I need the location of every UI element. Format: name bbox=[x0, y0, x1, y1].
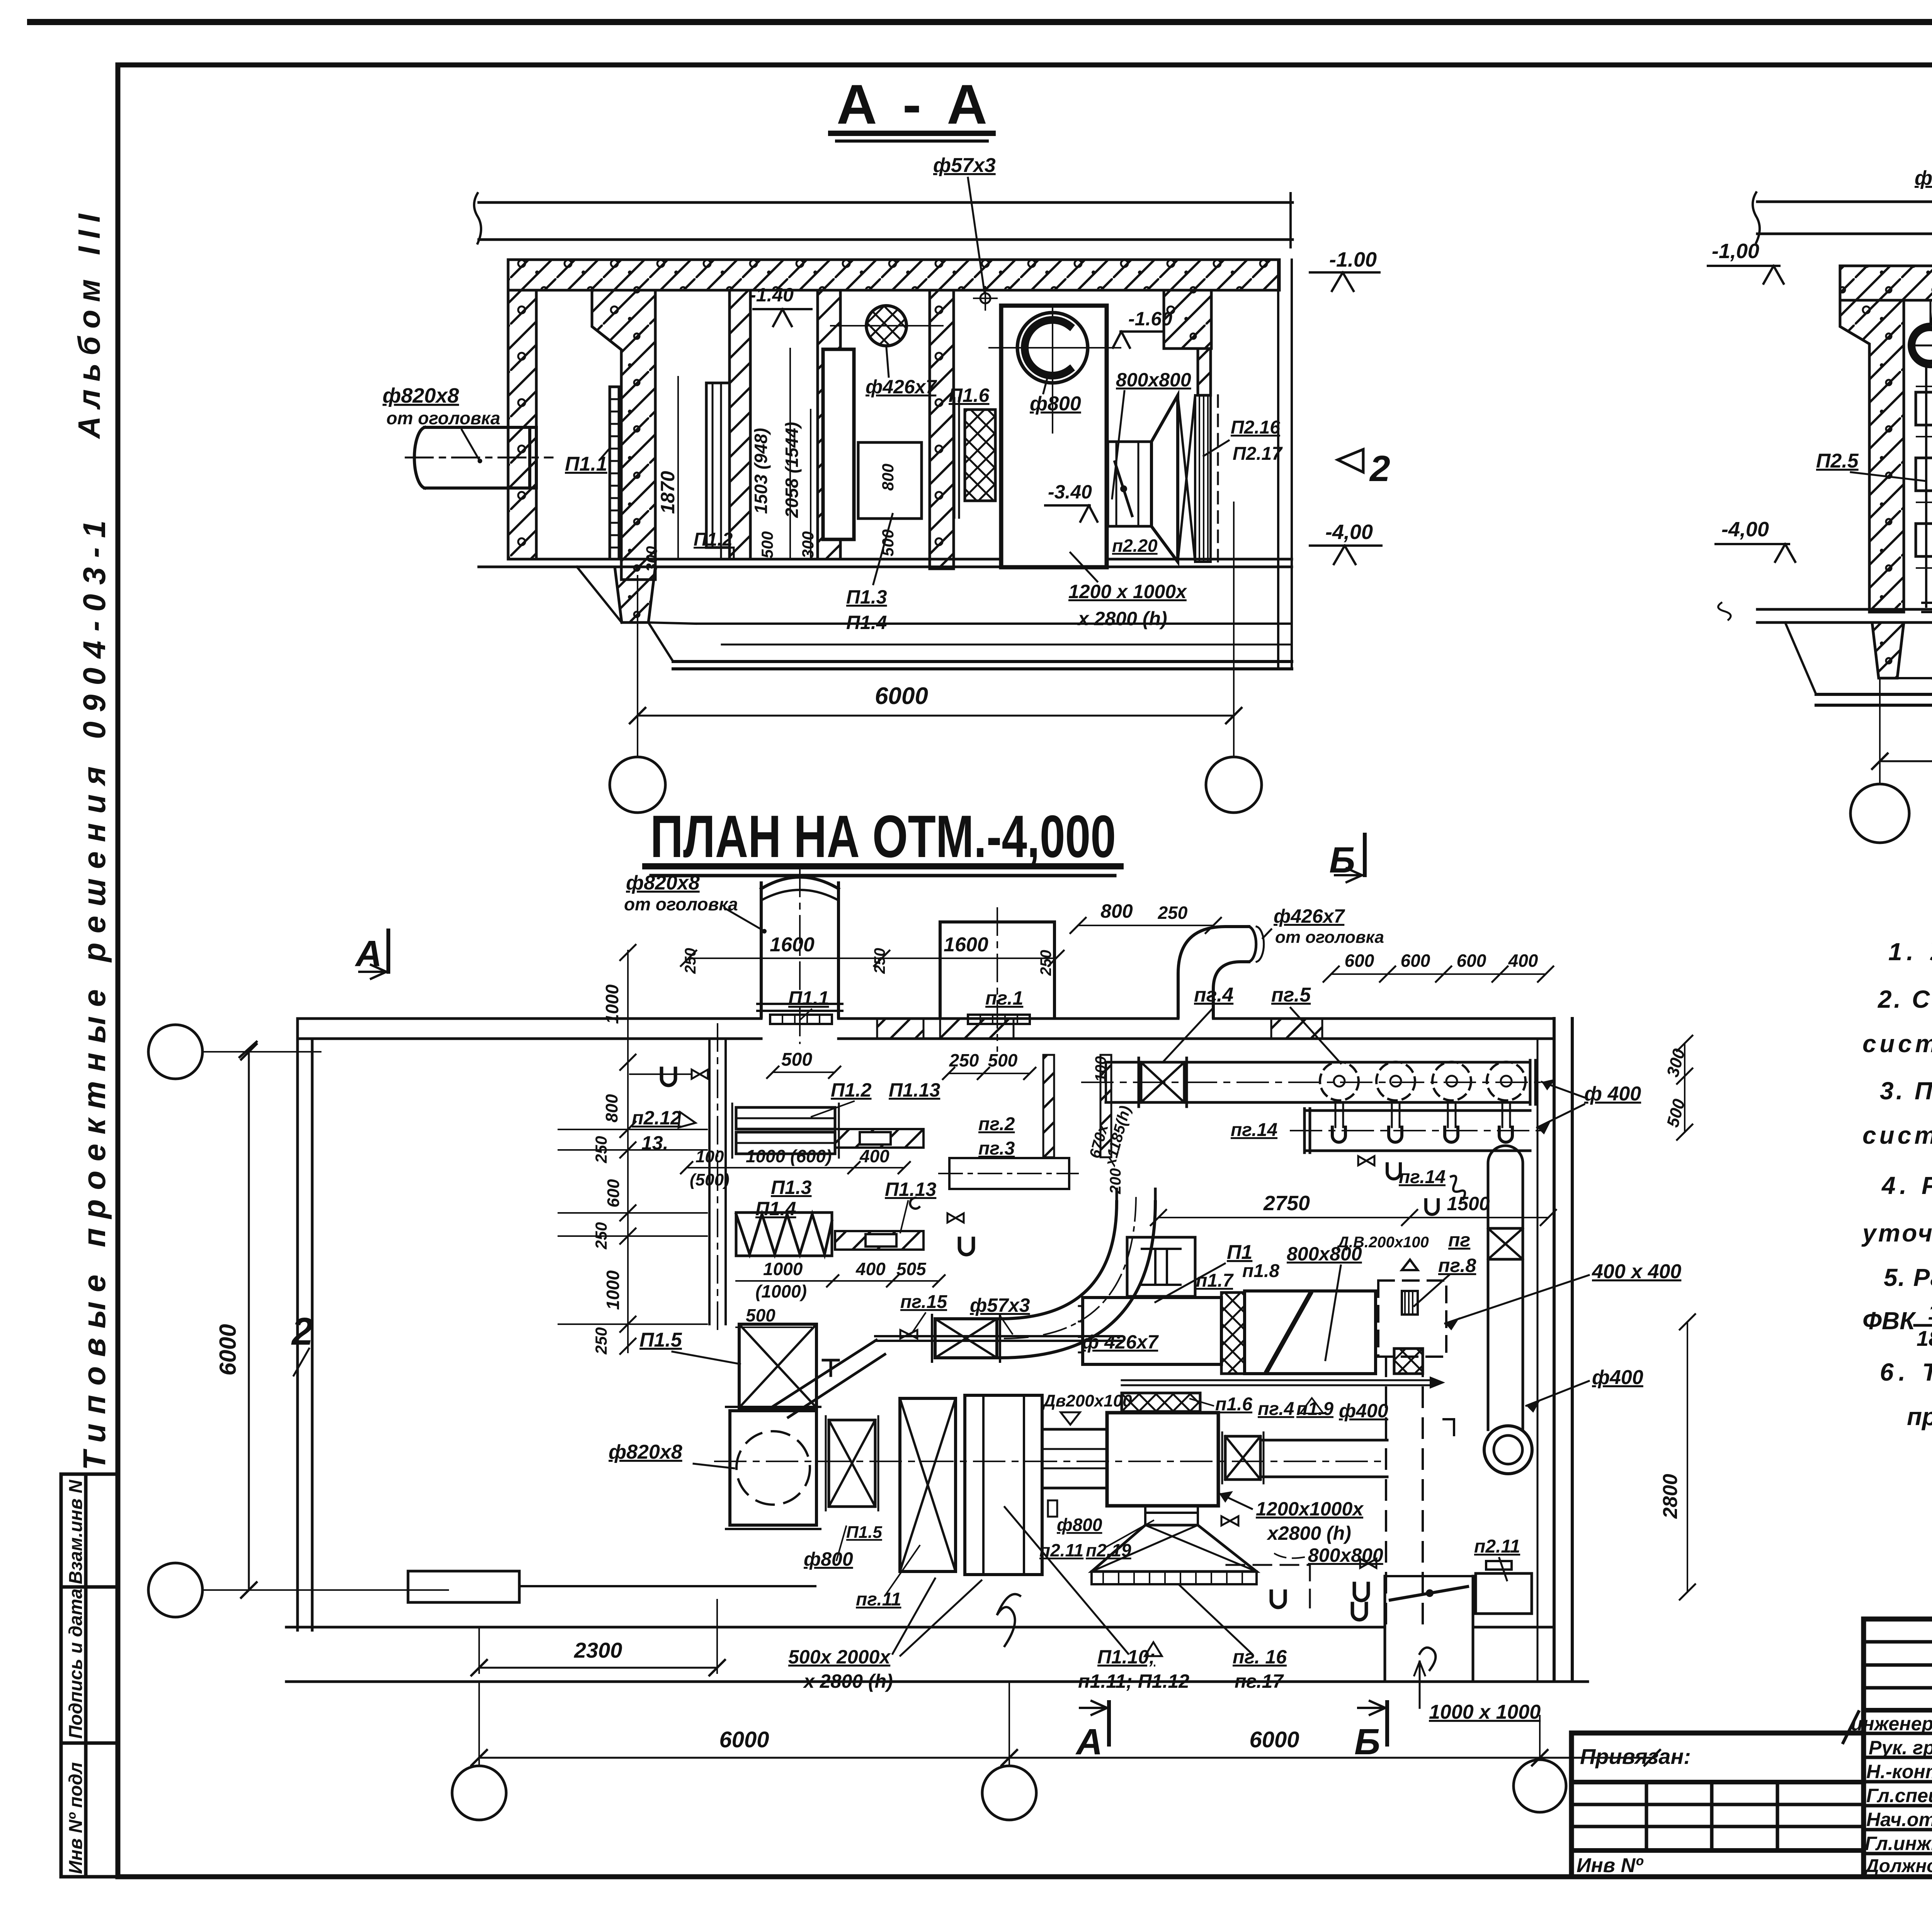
svg-text:П1.5: П1.5 bbox=[639, 1329, 682, 1351]
svg-text:х 2800 (h): х 2800 (h) bbox=[803, 1670, 893, 1692]
bottom axis circles bbox=[452, 1766, 506, 1820]
staff table bbox=[1864, 1619, 1932, 1877]
column circle A2 bbox=[1206, 757, 1262, 813]
axis tick left bbox=[240, 1042, 257, 1057]
ceiling lines bbox=[1757, 201, 1932, 203]
fan inlet circle f800 bbox=[1017, 313, 1088, 383]
P1.2 heater boxes bbox=[736, 1107, 835, 1129]
svg-text:П1.13: П1.13 bbox=[889, 1079, 940, 1101]
svg-text:2: 2 bbox=[291, 1310, 313, 1353]
vertical dimension lines bbox=[678, 349, 811, 559]
sheet top edge line bbox=[30, 19, 1932, 25]
valve + hook under duct2 bbox=[1358, 1156, 1374, 1165]
svg-text:400: 400 bbox=[855, 1259, 886, 1279]
svg-text:ф820х8: ф820х8 bbox=[626, 872, 700, 894]
svg-text:600: 600 bbox=[604, 1179, 623, 1207]
view marker triangle 2 bbox=[1338, 449, 1363, 472]
svg-text:1. Условные обозначения см.: 1. Условные обозначения см. лист ОВ-13. bbox=[1888, 938, 1932, 966]
concrete roof slab bbox=[508, 260, 1279, 290]
svg-text:А: А bbox=[1075, 1721, 1103, 1762]
dim 2300 bbox=[479, 1667, 717, 1669]
svg-text:Гл.инж.пр: Гл.инж.пр bbox=[1865, 1833, 1932, 1854]
thin pipe B with arrow bbox=[1122, 1379, 1430, 1381]
svg-text:13.: 13. bbox=[641, 1132, 668, 1154]
P1.1 flange on wall bbox=[770, 1015, 832, 1024]
top right dims 600 600 600 400 bbox=[1331, 973, 1546, 975]
svg-text:6000: 6000 bbox=[215, 1324, 241, 1376]
chamber box B bbox=[965, 1395, 1042, 1575]
svg-text:П2.17: П2.17 bbox=[1233, 444, 1283, 464]
svg-text:ф400: ф400 bbox=[1592, 1366, 1643, 1389]
svg-text:Н.-контр: Н.-контр bbox=[1866, 1761, 1932, 1782]
vertical duct f400 right bbox=[1488, 1146, 1523, 1175]
svg-text:800: 800 bbox=[879, 464, 897, 491]
hook cluster near elbow bbox=[959, 1238, 973, 1255]
dims 250 500 under P2.1 bbox=[949, 1073, 1030, 1074]
svg-text:пг.4: пг.4 bbox=[1258, 1399, 1294, 1419]
equipment box 3 duct 800 bbox=[858, 442, 922, 519]
bottom elbow arcs bbox=[1484, 1426, 1532, 1474]
dims 2750 1500 bbox=[1158, 1217, 1548, 1218]
X box on vertical duct bbox=[1488, 1228, 1523, 1259]
round duct box f820 bbox=[730, 1411, 816, 1525]
svg-text:6000: 6000 bbox=[1249, 1727, 1299, 1752]
top dim rows bbox=[689, 957, 1056, 959]
AHU box 1 bbox=[1083, 1298, 1221, 1364]
P2.4 X-box and big elbow f426 bbox=[935, 1319, 997, 1358]
P1.6 flex band bbox=[1122, 1393, 1200, 1412]
svg-text:систем см. лист ОВ-13.: систем см. лист ОВ-13. bbox=[1862, 1121, 1932, 1149]
svg-text:Рук. гр: Рук. гр bbox=[1869, 1737, 1932, 1759]
P1.5 X box bbox=[739, 1324, 816, 1408]
svg-text:п2.12: п2.12 bbox=[632, 1107, 681, 1129]
svg-text:ф426х7: ф426х7 bbox=[1274, 905, 1345, 927]
svg-text:п2.20: п2.20 bbox=[1112, 536, 1158, 556]
svg-text:1800-2: 1800-2 bbox=[1928, 1300, 1932, 1324]
svg-text:ф426х7: ф426х7 bbox=[866, 376, 937, 398]
svg-text:пг.14: пг.14 bbox=[1231, 1120, 1277, 1140]
left dim chain bbox=[627, 951, 629, 1352]
chimney f820 through wall bbox=[760, 883, 763, 1017]
round duct f426x7 crosshatched bbox=[866, 306, 906, 346]
column circle A1 bbox=[610, 757, 665, 813]
svg-text:п1.8: п1.8 bbox=[1242, 1261, 1279, 1281]
interior partition 2 bbox=[818, 290, 840, 559]
svg-text:500: 500 bbox=[988, 1050, 1018, 1070]
svg-text:Должност: Должност bbox=[1864, 1856, 1932, 1876]
svg-text:проектировании.: проектировании. bbox=[1907, 1403, 1932, 1430]
svg-text:-1.60: -1.60 bbox=[1128, 308, 1172, 330]
svg-text:-4,00: -4,00 bbox=[1721, 518, 1769, 541]
svg-text:800х800: 800х800 bbox=[1116, 369, 1191, 391]
svg-text:1000: 1000 bbox=[602, 984, 622, 1024]
svg-text:П2.5: П2.5 bbox=[1816, 450, 1859, 472]
hangers under outlets bbox=[1335, 1102, 1510, 1127]
upper AHU row: I-beam support bbox=[1127, 1237, 1195, 1296]
svg-text:П1.2: П1.2 bbox=[831, 1079, 872, 1101]
column circle B1 bbox=[1850, 784, 1909, 843]
privyazan table bbox=[1571, 1733, 1864, 1877]
svg-text:ф800: ф800 bbox=[1057, 1515, 1102, 1535]
svg-text:-3.40: -3.40 bbox=[1048, 481, 1092, 503]
svg-text:3. Принципиальную схему рабо: 3. Принципиальную схему работы вентиляци… bbox=[1880, 1077, 1932, 1105]
steam pipe f57x3 horizontal bbox=[875, 1335, 1122, 1337]
svg-text:1000 х 1000: 1000 х 1000 bbox=[1429, 1701, 1541, 1723]
duct run 2 (P2.14) bbox=[1304, 1109, 1530, 1112]
svg-text:Типовые проектные решения 0904: Типовые проектные решения 0904-03-1 bbox=[77, 511, 112, 1470]
svg-text:2. Спецификацию вентиляционно: 2. Спецификацию вентиляционного оборудов… bbox=[1878, 985, 1932, 1013]
svg-text:ф57х3: ф57х3 bbox=[933, 154, 996, 177]
dashed vertical duct 400x400 bbox=[1385, 1357, 1387, 1625]
duct below wall with hatched jambs bbox=[1043, 1055, 1054, 1157]
svg-text:6. Тип калориферов определяе: 6. Тип калориферов определяется при bbox=[1880, 1358, 1932, 1386]
chamber box A bbox=[900, 1398, 956, 1571]
box Инв № подл bbox=[61, 1743, 118, 1877]
svg-text:п1.7: п1.7 bbox=[1196, 1270, 1234, 1291]
left pilaster concrete bbox=[1840, 300, 1904, 612]
svg-text:пг.1: пг.1 bbox=[985, 987, 1023, 1009]
svg-text:пг.15: пг.15 bbox=[900, 1292, 947, 1312]
svg-text:ф800: ф800 bbox=[804, 1548, 853, 1570]
svg-text:Привязан:: Привязан: bbox=[1580, 1744, 1691, 1769]
svg-text:п2.11: п2.11 bbox=[1474, 1536, 1520, 1557]
valve boxes on stack bbox=[1916, 392, 1932, 425]
svg-text:-4,00: -4,00 bbox=[1325, 520, 1373, 544]
svg-text:уточняется при привязке про: уточняется при привязке проекта. bbox=[1861, 1219, 1932, 1247]
svg-text:ф400: ф400 bbox=[1339, 1400, 1388, 1422]
svg-text:П1.6: П1.6 bbox=[949, 384, 990, 406]
AHU filter bbox=[1221, 1293, 1245, 1374]
svg-text:Дв200х100: Дв200х100 bbox=[1042, 1391, 1132, 1410]
svg-text:ф57х3: ф57х3 bbox=[970, 1294, 1030, 1316]
box Взам.инв № bbox=[61, 1474, 118, 1587]
hook + valve at top-left wall bbox=[662, 1068, 675, 1085]
X damper box bbox=[829, 1420, 875, 1507]
svg-text:п1.6: п1.6 bbox=[1215, 1394, 1252, 1415]
svg-text:400: 400 bbox=[1508, 951, 1538, 971]
P2.1 flange on wall bbox=[968, 1015, 1030, 1024]
svg-text:500: 500 bbox=[781, 1049, 812, 1070]
svg-text:600: 600 bbox=[1345, 951, 1374, 971]
hanging concrete block bbox=[1164, 290, 1211, 349]
P2.2 P2.3 duct bbox=[949, 1158, 1069, 1189]
svg-text:ПЛАН НА ОТМ.-4,000: ПЛАН НА ОТМ.-4,000 bbox=[650, 803, 1116, 870]
svg-text:П1.4: П1.4 bbox=[755, 1198, 796, 1219]
svg-text:5. Размеры в скобках относят: 5. Размеры в скобках относятся только к … bbox=[1884, 1264, 1932, 1291]
svg-text:4. Размер воздуховода в осн: 4. Размер воздуховода в основное помещен… bbox=[1881, 1172, 1932, 1199]
svg-text:(500): (500) bbox=[690, 1170, 730, 1189]
svg-text:800х800: 800х800 bbox=[1308, 1544, 1383, 1566]
X box P2.4 on duct bbox=[1141, 1062, 1184, 1102]
interior partition 1 bbox=[730, 290, 750, 559]
svg-text:от оголовка: от оголовка bbox=[1275, 928, 1384, 947]
fan unit box bbox=[1001, 306, 1107, 567]
svg-text:А-А: А-А bbox=[837, 73, 987, 136]
P1.6 frame lines bbox=[954, 398, 959, 518]
floor lines bbox=[1757, 608, 1932, 611]
equipment box 1 (P1.2 damper) bbox=[706, 383, 730, 548]
interior concrete pier bbox=[930, 290, 954, 569]
svg-text:2300: 2300 bbox=[574, 1638, 622, 1662]
svg-text:х 2800 (h): х 2800 (h) bbox=[1077, 608, 1167, 629]
svg-text:300: 300 bbox=[643, 546, 660, 572]
svg-text:1600: 1600 bbox=[944, 934, 988, 956]
svg-text:Гл.спец: Гл.спец bbox=[1866, 1785, 1932, 1806]
svg-text:ф 400: ф 400 bbox=[1584, 1083, 1641, 1105]
svg-text:250: 250 bbox=[1158, 903, 1188, 923]
dim 500 under P1.1 bbox=[773, 1071, 835, 1073]
right wall bbox=[1553, 1019, 1556, 1680]
svg-text:2750: 2750 bbox=[1263, 1192, 1310, 1215]
svg-text:250: 250 bbox=[1037, 950, 1054, 976]
svg-text:пг.14: пг.14 bbox=[1399, 1167, 1446, 1187]
bottom-left low wall bbox=[408, 1571, 519, 1602]
duct f820x8 from left bbox=[425, 427, 536, 488]
svg-text:250: 250 bbox=[949, 1050, 979, 1070]
svg-text:пг.8: пг.8 bbox=[1438, 1255, 1476, 1276]
svg-text:1000 (600): 1000 (600) bbox=[746, 1146, 832, 1166]
hatched wall bar 1 bbox=[835, 1129, 923, 1148]
svg-text:800: 800 bbox=[602, 1094, 621, 1122]
big box 1200x1000 bbox=[1107, 1413, 1218, 1506]
svg-text:1500: 1500 bbox=[1447, 1193, 1490, 1214]
damper diagonal bottom right bbox=[1390, 1587, 1468, 1600]
AHU box 2 with diagonal bbox=[1245, 1291, 1376, 1374]
svg-text:-1,00: -1,00 bbox=[1712, 240, 1759, 263]
valve near bell mouth bbox=[1221, 1516, 1238, 1526]
foundation pit bbox=[1872, 622, 1904, 678]
box Подпись и дата bbox=[61, 1587, 118, 1743]
svg-text:инженер: инженер bbox=[1851, 1713, 1932, 1735]
svg-text:6000: 6000 bbox=[719, 1727, 769, 1752]
svg-text:от оголовка: от оголовка bbox=[624, 894, 738, 914]
axis circles left bbox=[148, 1025, 202, 1079]
svg-text:Альбом III: Альбом III bbox=[72, 206, 106, 439]
bottom wall line bbox=[286, 1626, 1385, 1629]
svg-text:от оголовка: от оголовка bbox=[386, 408, 500, 428]
duct stub 800x800 with damper bbox=[1108, 442, 1151, 526]
connector bbox=[1042, 1429, 1107, 1488]
transition cone P2.20 bbox=[1151, 395, 1178, 562]
hook and valve bottom right bbox=[1354, 1583, 1368, 1600]
svg-text:Д.В.200х100: Д.В.200х100 bbox=[1337, 1234, 1429, 1251]
svg-text:П1.2: П1.2 bbox=[694, 529, 733, 550]
squiggle mark bbox=[997, 1594, 1020, 1646]
svg-text:х2800 (h): х2800 (h) bbox=[1266, 1522, 1351, 1544]
svg-text:300: 300 bbox=[799, 531, 817, 558]
svg-text:пг.17: пг.17 bbox=[1235, 1670, 1284, 1692]
svg-text:500х 2000х: 500х 2000х bbox=[788, 1646, 891, 1668]
svg-text:1870: 1870 bbox=[657, 471, 679, 514]
svg-text:Взам.инв N: Взам.инв N bbox=[66, 1480, 86, 1584]
supply louver P1.1 bbox=[610, 387, 619, 559]
svg-text:500: 500 bbox=[758, 531, 776, 558]
svg-text:250: 250 bbox=[592, 1327, 610, 1355]
svg-text:1503 (948): 1503 (948) bbox=[751, 428, 771, 514]
svg-text:Инв Nº подл: Инв Nº подл bbox=[66, 1762, 86, 1874]
svg-text:П1.4: П1.4 bbox=[846, 612, 887, 633]
left dim 6000 vertical bbox=[248, 1052, 250, 1590]
svg-text:Инв Nº: Инв Nº bbox=[1577, 1854, 1644, 1877]
duct exit bottom right bbox=[1384, 1576, 1386, 1682]
svg-text:П1.3: П1.3 bbox=[771, 1177, 812, 1198]
svg-text:П1.3: П1.3 bbox=[846, 586, 887, 608]
P1.3 P1.4 W filter bbox=[736, 1213, 832, 1256]
svg-text:П1: П1 bbox=[1227, 1241, 1252, 1264]
top wall of room bbox=[298, 1017, 761, 1020]
left exterior wall bbox=[508, 290, 536, 559]
svg-text:250: 250 bbox=[871, 948, 888, 974]
dim 6000 bbox=[638, 715, 1234, 717]
dim 6000 6000 bottom bbox=[479, 1757, 1652, 1759]
svg-text:500: 500 bbox=[746, 1305, 776, 1325]
svg-text:400: 400 bbox=[859, 1146, 889, 1166]
svg-text:250: 250 bbox=[682, 948, 699, 974]
svg-text:2058 (1544): 2058 (1544) bbox=[782, 422, 802, 518]
wall hatch segments bbox=[940, 1019, 1014, 1039]
hatched wall bar 2 bbox=[835, 1231, 923, 1250]
svg-text:пг.4: пг.4 bbox=[1194, 984, 1233, 1006]
svg-text:1000: 1000 bbox=[603, 1270, 623, 1310]
svg-text:1200х1000х: 1200х1000х bbox=[1256, 1498, 1364, 1520]
svg-text:пг. 16: пг. 16 bbox=[1233, 1646, 1287, 1668]
right rotated dims 300 500 bbox=[1684, 1043, 1685, 1132]
svg-text:800: 800 bbox=[1100, 900, 1133, 922]
left wall bbox=[296, 1019, 299, 1630]
fan hangers bbox=[1930, 300, 1932, 324]
signatures bbox=[1843, 1712, 1932, 1857]
pipe stack on wall bbox=[1926, 367, 1932, 607]
equipment box 2 (P1.3 unit) bbox=[823, 349, 854, 539]
bell mouth with flex bbox=[1145, 1506, 1198, 1525]
svg-text:ф820х8: ф820х8 bbox=[383, 384, 459, 407]
bottom long boundary bbox=[286, 1680, 1588, 1683]
foundation pit bbox=[615, 567, 655, 622]
svg-text:Нач.отд: Нач.отд bbox=[1866, 1809, 1932, 1830]
svg-text:1600: 1600 bbox=[770, 934, 815, 956]
dim 2800 right bbox=[1687, 1322, 1688, 1592]
dash-dot duct to hooks bottom bbox=[1226, 1565, 1310, 1613]
svg-text:пг.2: пг.2 bbox=[978, 1114, 1015, 1134]
four f400 outlets bbox=[1320, 1062, 1526, 1100]
svg-text:ф 400: ф 400 bbox=[1915, 167, 1932, 189]
subfloor profile bbox=[1785, 622, 1932, 694]
svg-text:пг: пг bbox=[1448, 1229, 1470, 1251]
svg-text:Подпись и дата: Подпись и дата bbox=[66, 1588, 86, 1739]
right wall boundary lines bbox=[1277, 260, 1279, 668]
svg-text:П1.13: П1.13 bbox=[885, 1179, 936, 1200]
svg-text:ф820х8: ф820х8 bbox=[609, 1441, 682, 1463]
svg-text:систем П1; П2 см. лист ОВ-7: систем П1; П2 см. лист ОВ-7. bbox=[1862, 1030, 1932, 1058]
svg-text:2: 2 bbox=[1369, 448, 1390, 489]
svg-text:П1.1: П1.1 bbox=[565, 453, 607, 475]
svg-text:П2.16: П2.16 bbox=[1231, 417, 1280, 438]
duct down from filters + diagonal to pipe bbox=[773, 1340, 885, 1417]
ceiling slab top lines bbox=[479, 201, 1293, 204]
svg-text:пг.3: пг.3 bbox=[978, 1138, 1015, 1159]
svg-text:-1.40: -1.40 bbox=[750, 284, 794, 306]
svg-text:-1.00: -1.00 bbox=[1329, 248, 1377, 271]
svg-text:18000/3600.: 18000/3600. bbox=[1917, 1326, 1932, 1350]
duct right of AHU with X box bbox=[1225, 1436, 1260, 1480]
roof slab concrete bbox=[1840, 266, 1932, 300]
svg-text:п2.19: п2.19 bbox=[1086, 1540, 1131, 1560]
hatched wall strip bbox=[1198, 349, 1211, 395]
floor lines bbox=[508, 558, 1292, 561]
svg-text:пг.11: пг.11 bbox=[856, 1589, 901, 1610]
upper-right duct run 1 bbox=[1106, 1061, 1530, 1064]
round damper 1 bbox=[1909, 324, 1932, 367]
svg-text:пг.5: пг.5 bbox=[1271, 984, 1311, 1006]
concrete pilaster bbox=[592, 290, 655, 580]
svg-text:6000: 6000 bbox=[875, 683, 928, 709]
svg-text:600: 600 bbox=[1401, 951, 1430, 971]
svg-text:П1.1: П1.1 bbox=[788, 987, 829, 1009]
grille strip bbox=[1195, 395, 1211, 562]
svg-text:1000: 1000 bbox=[763, 1259, 803, 1279]
elbow pipe f426 through wall bbox=[1178, 927, 1249, 1017]
left margin stamp boxes bbox=[61, 1474, 118, 1877]
dim 6000 bbox=[1880, 760, 1932, 762]
duct 800 through wall top bbox=[939, 922, 942, 1017]
svg-text:400 х 400: 400 х 400 bbox=[1592, 1260, 1681, 1283]
svg-text:250: 250 bbox=[592, 1136, 610, 1163]
svg-text:505: 505 bbox=[896, 1259, 927, 1279]
svg-text:ф800: ф800 bbox=[1030, 393, 1081, 415]
svg-text:П1.5: П1.5 bbox=[846, 1523, 882, 1542]
svg-text:(1000): (1000) bbox=[755, 1281, 807, 1301]
svg-text:Б: Б bbox=[1354, 1721, 1380, 1762]
sub-floor profile lines bbox=[577, 567, 673, 662]
svg-text:ФВК: ФВК bbox=[1862, 1307, 1916, 1335]
svg-text:600: 600 bbox=[1457, 951, 1486, 971]
svg-text:250: 250 bbox=[592, 1222, 610, 1250]
supply duct from P1.1 down bbox=[708, 1039, 711, 1324]
filter P1.6 crosshatched bbox=[965, 410, 995, 501]
svg-text:п1.11; П1.12: п1.11; П1.12 bbox=[1078, 1670, 1189, 1692]
svg-text:100: 100 bbox=[696, 1147, 724, 1166]
P2.8 dashed cluster bbox=[1378, 1281, 1446, 1357]
svg-text:1200 х 1000х: 1200 х 1000х bbox=[1068, 581, 1187, 602]
svg-text:2800: 2800 bbox=[1659, 1474, 1682, 1519]
